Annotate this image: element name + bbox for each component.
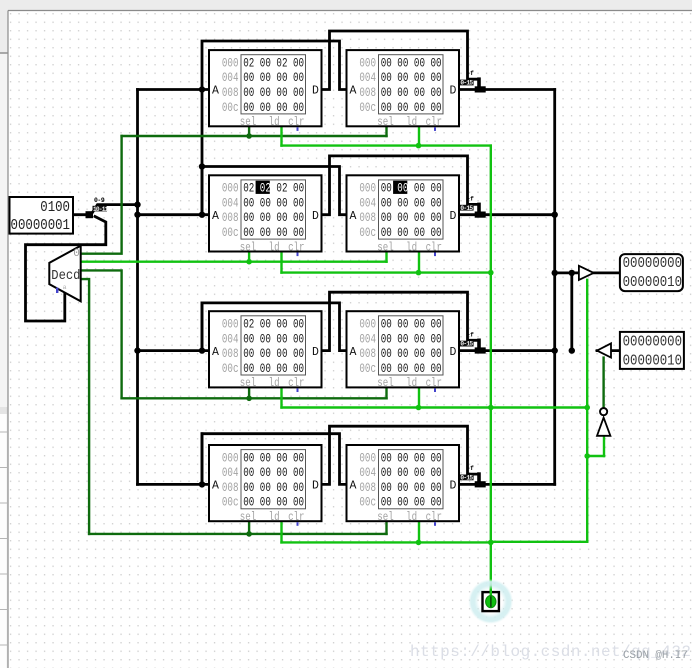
junction J12 [569,270,575,276]
svg-text:a: a [63,284,67,291]
svg-text:D: D [312,346,319,359]
splitter S1 [477,79,481,87]
wire to inverter input [587,455,604,457]
svg-text:ld: ld [269,241,280,255]
junction J4 [199,86,205,92]
wire V2 x=137.5 [136,90,139,485]
svg-text:00 00 00 00: 00 00 00 00 [243,227,304,241]
wire: select path to decoder [26,217,106,322]
svg-text:clr: clr [426,377,442,391]
svg-text:D: D [312,85,319,98]
svg-text:004: 004 [222,333,239,347]
svg-text:02 00: 02 00 [271,182,304,196]
svg-text:00 00 00 00: 00 00 00 00 [243,496,304,510]
junction J8 [199,481,205,487]
svg-text:A: A [212,210,219,223]
svg-text:sel: sel [377,511,393,525]
svg-text:-f: -f [467,195,474,202]
svg-text:008: 008 [222,348,239,362]
svg-text:0-15: 0-15 [460,475,473,482]
wire row3 D up-over [322,292,479,350]
svg-text:00000001: 00000001 [11,217,70,235]
svg-text:008: 008 [359,212,376,226]
junction JS1 (sel) [246,133,252,139]
input pin P3 (16-bit write value) [620,332,684,370]
svg-text:00 00 00 00: 00 00 00 00 [243,482,304,496]
svg-text:0-9: 0-9 [94,197,105,204]
wire row1 sel line [122,135,387,137]
wire decoder out0 [81,136,122,254]
svg-text:00 00 00 00: 00 00 00 00 [243,72,304,86]
wire row1 left ld riser [280,126,282,145]
junction JL7 (ld) [488,405,494,411]
wire row4 right ld riser [418,521,420,542]
svg-text:D: D [450,210,457,223]
wire row4 ld extension [491,541,587,543]
svg-text:00c: 00c [222,102,239,116]
svg-text:00 00 00 00: 00 00 00 00 [243,348,304,362]
svg-text:ld: ld [269,377,280,391]
svg-text:008: 008 [359,87,376,101]
svg-text:00: 00 [397,182,408,196]
junction J6 [199,212,205,218]
svg-text:000: 000 [222,182,239,196]
wire row4 D bus to main vertical [459,483,555,486]
wire bus to read buffer [555,271,579,274]
wire inverter input riser [603,436,605,456]
svg-text:02: 02 [243,182,260,196]
svg-text:00 00 00 00: 00 00 00 00 [381,87,442,101]
svg-text:00 00 00 00: 00 00 00 00 [381,227,442,241]
wire V1 x=202 rows1-2 [201,90,204,215]
wire vertical 571.8 [570,273,573,351]
window chrome strips [0,0,692,11]
svg-text:00 00 00 00: 00 00 00 00 [381,496,442,510]
svg-text:00 00 00 00: 00 00 00 00 [381,318,442,332]
svg-text:-f: -f [467,465,474,472]
junction J2 [134,212,140,218]
svg-text:sel: sel [377,241,393,255]
svg-text:00 00 00 00: 00 00 00 00 [243,452,304,466]
wire row1 D up-over [322,31,479,90]
junction J9 [552,212,558,218]
svg-text:00c: 00c [359,496,376,510]
wire row3 left ld riser [280,387,282,407]
svg-text:00 00 00 00: 00 00 00 00 [381,467,442,481]
svg-text:008: 008 [222,87,239,101]
wire decoder out3 [81,279,89,534]
selection halo [468,579,513,624]
wire row1 right sel riser [385,126,387,136]
svg-text:000: 000 [222,318,239,332]
wire row3 right sel riser [385,387,387,398]
junction J3 [134,347,140,353]
junction JL9 (ld) [584,405,590,411]
wire row2 A feed [138,213,210,216]
splitter SP1 legs [91,205,138,215]
svg-text:000: 000 [222,57,239,71]
splitter S2 [477,204,481,212]
wire read buffer to output pin [594,271,620,274]
svg-text:A: A [350,480,357,493]
wire row1 right ld riser [418,126,420,145]
svg-text:sel: sel [377,116,393,130]
svg-text:Decd: Decd [51,268,80,284]
svg-text:00 00 00 00: 00 00 00 00 [381,333,442,347]
RAM U6 (row 3 right) [347,311,460,392]
wire row4 left sel riser [248,521,250,534]
buffer B2 (write, west) [597,343,611,357]
junction JL2 (ld) [416,143,422,149]
decoder U-Decd [49,246,80,302]
wire row3 daisy riser [201,303,204,351]
svg-text:000: 000 [359,182,376,196]
left attribute panel slice [0,407,7,668]
svg-text:A: A [350,346,357,359]
svg-text:004: 004 [359,467,376,481]
wire row1 D bus to main vertical [459,88,555,91]
svg-text:00c: 00c [359,227,376,241]
wire row3 right ld riser [418,387,420,407]
wire main data bus vertical [553,90,556,485]
junction JL10 (ld) [584,453,590,459]
svg-text:00 00 00 00: 00 00 00 00 [381,348,442,362]
svg-text:00000010: 00000010 [623,274,682,292]
junction J10 [552,270,558,276]
RAM U7 (row 4 left) [209,445,322,526]
wire row3 D bus to main vertical [459,349,555,352]
wire row4 ld line [282,541,491,543]
svg-text:0-15: 0-15 [460,80,473,87]
svg-text:00 00 00 00: 00 00 00 00 [381,197,442,211]
svg-text:004: 004 [222,72,239,86]
junction J1 [134,201,140,207]
svg-text:sel: sel [240,377,256,391]
svg-text:ld: ld [406,241,417,255]
svg-text:00 00 00 00: 00 00 00 00 [381,482,442,496]
wire row4 daisy riser [201,434,204,485]
svg-text:00 00 00 00: 00 00 00 00 [381,212,442,226]
svg-text:004: 004 [222,197,239,211]
svg-text:sel: sel [240,241,256,255]
buffer B1 (read, east) [579,266,594,280]
input pin P4 (write-enable switch, value 1) [483,590,499,612]
RAM U3 (row 2 left) [209,175,322,256]
svg-text:-f: -f [467,70,474,77]
svg-text:00c: 00c [359,102,376,116]
svg-text:clr: clr [288,377,304,391]
junction JL1 (ld) [246,259,252,265]
svg-text:004: 004 [359,72,376,86]
svg-text:D: D [450,480,457,493]
RAM U1 (row 1 left) [209,50,322,131]
svg-text:008: 008 [359,348,376,362]
RAM U2 (row 1 right) [347,50,460,131]
svg-text:A: A [212,346,219,359]
junction J11 [552,347,558,353]
wire decoder out2 [81,270,122,398]
svg-text:000: 000 [359,57,376,71]
svg-text:ld: ld [406,377,417,391]
wire row4 D up-over [322,426,479,484]
svg-text:000: 000 [222,452,239,466]
svg-text:CSDN @H.I7: CSDN @H.I7 [623,650,688,662]
wire row1 A feed [138,88,210,91]
svg-text:00 00 00 00: 00 00 00 00 [243,212,304,226]
svg-text:clr: clr [288,241,304,255]
wire write buffer in/out [597,349,620,352]
svg-text:00 00 00 00: 00 00 00 00 [381,102,442,116]
svg-text:clr: clr [288,511,304,525]
svg-text:00 00 00 00: 00 00 00 00 [243,87,304,101]
svg-text:004: 004 [359,333,376,347]
wire: input trunk to splitter [72,213,88,216]
junction JL5 (ld) [416,540,422,546]
svg-text:004: 004 [359,197,376,211]
svg-text:008: 008 [222,482,239,496]
svg-text:0-15: 0-15 [460,341,473,348]
svg-text:00000000: 00000000 [623,333,682,351]
wire decoder out1 row2 sel line [81,261,387,263]
svg-text:02: 02 [260,182,271,196]
wire row4 left ld riser [280,521,282,542]
svg-text:00 00 00 00: 00 00 00 00 [243,467,304,481]
svg-text:008: 008 [359,482,376,496]
svg-text:008: 008 [222,212,239,226]
svg-text:02 00 02 00: 02 00 02 00 [243,57,304,71]
wire row2 D bus to main vertical [459,213,555,216]
svg-text:00 00 00 00: 00 00 00 00 [381,72,442,86]
svg-text:00 00 00 00: 00 00 00 00 [381,452,442,466]
svg-text:00 00 00 00: 00 00 00 00 [243,363,304,377]
wire inverter out to write buffer enable [602,358,604,408]
splitter S4 [477,474,481,482]
svg-text:sel: sel [377,377,393,391]
svg-text:00c: 00c [222,363,239,377]
wire row2 right sel riser [385,252,387,262]
wire row2 ld line [282,271,491,273]
wire row2 A daisy up-over [202,167,347,215]
svg-text:00c: 00c [222,496,239,510]
junction J13 [569,347,575,353]
wire row1 left sel riser [248,126,250,136]
junction JS3 (sel) [246,531,252,537]
junction JL8 (ld) [488,540,494,546]
wire row3 ld extension [491,406,587,408]
svg-text:00 00 00 00: 00 00 00 00 [243,197,304,211]
wire row2 left ld riser [280,252,282,273]
svg-text:ld: ld [269,116,280,130]
svg-text:sel: sel [240,511,256,525]
wire row2 D up-over [322,156,479,215]
wire row3 ld line [282,406,491,408]
junction JL3 (ld) [416,270,422,276]
RAM U8 (row 4 right) [347,445,460,526]
junction J5 [199,163,205,169]
svg-text:ld: ld [406,511,417,525]
splitter S3 [477,340,481,348]
svg-text:D: D [312,480,319,493]
svg-text:clr: clr [426,116,442,130]
svg-text:00000000: 00000000 [623,255,682,273]
junction JL4 (ld) [416,405,422,411]
svg-text:0-15: 0-15 [460,205,473,212]
junction JL6 (ld) [488,270,494,276]
svg-text:A: A [350,85,357,98]
inverter G1 (north) [597,408,610,436]
wire row4 A feed [138,483,210,486]
wire row4 sel line [89,533,386,535]
svg-text:ld: ld [406,116,417,130]
svg-text:0100: 0100 [40,199,70,217]
svg-text:A: A [212,85,219,98]
svg-text:A: A [212,480,219,493]
svg-text:D: D [312,210,319,223]
svg-text:00 00 00 00: 00 00 00 00 [381,363,442,377]
wire row3 A feed [138,349,210,352]
wire row1 ld line [282,144,491,146]
svg-text:ld: ld [269,511,280,525]
junction JS2 (sel) [246,396,252,402]
wire row3 sel line [122,397,387,399]
svg-text:-f: -f [467,331,474,338]
wire row2 left sel riser [248,252,250,262]
svg-text:00000010: 00000010 [623,353,682,371]
svg-text:10-11: 10-11 [93,206,109,213]
svg-text:02 00 00 00: 02 00 00 00 [243,318,304,332]
wire read-buffer enable vertical x=587 [586,280,588,542]
svg-text:00 00: 00 00 [408,182,441,196]
svg-text:clr: clr [426,241,442,255]
wire row1 A daisy up-over [202,41,347,90]
svg-text:D: D [450,346,457,359]
svg-text:00 00 00 00: 00 00 00 00 [381,57,442,71]
svg-text:clr: clr [426,511,442,525]
wire row3 left sel riser [248,387,250,398]
wire row3 A daisy up-over [202,303,347,351]
svg-text:000: 000 [359,452,376,466]
svg-text:sel: sel [240,116,256,130]
RAM U4 (row 2 right) [347,175,460,256]
svg-text:00 00 00 00: 00 00 00 00 [243,333,304,347]
svg-text:clr: clr [288,116,304,130]
svg-text:D: D [450,85,457,98]
svg-text:0: 0 [73,248,80,260]
output pin P2 (16-bit read value) [620,254,683,291]
svg-text:00: 00 [381,182,398,196]
wire row4 A daisy up-over [202,434,347,485]
svg-text:000: 000 [359,318,376,332]
svg-text:00c: 00c [359,363,376,377]
junction J7 [199,347,205,353]
input pin P1 (12-bit address value 0100 00000001) [10,197,74,235]
wire row2 right ld riser [418,252,420,273]
wire row4 right sel riser [385,521,387,534]
svg-text:00c: 00c [222,227,239,241]
svg-text:004: 004 [222,467,239,481]
RAM U5 (row 3 left) [209,311,322,392]
svg-text:00 00 00 00: 00 00 00 00 [243,102,304,116]
svg-text:A: A [350,210,357,223]
wire ld bus vertical from switch [490,146,492,592]
